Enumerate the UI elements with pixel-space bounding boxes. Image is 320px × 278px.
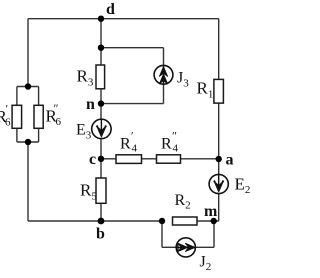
resistor R3 [96, 65, 105, 89]
svg-text:m: m [204, 203, 218, 220]
wire right rail upper [218, 19, 220, 80]
svg-text:4: 4 [173, 143, 179, 155]
wire c to R4' [101, 158, 116, 160]
node R6 top junction [25, 83, 31, 89]
svg-text:′: ′ [6, 102, 9, 116]
wire J2 branch bottom left [162, 246, 176, 248]
wire R4'' to a [181, 158, 219, 160]
resistor R2 [173, 217, 198, 225]
label R6' [0, 102, 11, 129]
svg-text:d: d [106, 1, 115, 18]
resistor R5 [96, 178, 106, 203]
svg-text:c: c [89, 151, 96, 168]
svg-text:a: a [226, 152, 234, 169]
svg-text:R: R [120, 136, 131, 153]
wire left rail upper [27, 19, 29, 87]
source E2 [209, 174, 228, 193]
wire top rail d [28, 18, 219, 20]
resistor R4' [116, 155, 142, 164]
wire bottom rail [28, 220, 162, 222]
svg-text:4: 4 [132, 143, 138, 155]
label R4' [120, 129, 138, 155]
source J2 [176, 238, 195, 257]
resistor R6'' [34, 105, 43, 128]
svg-text:′: ′ [131, 129, 134, 143]
node a junction [216, 156, 222, 162]
wire left rail lower [27, 142, 29, 221]
wire R6' leads [16, 87, 18, 143]
svg-text:b: b [96, 226, 105, 243]
wire R6 top bar [17, 86, 39, 88]
wire R6 bottom bar [17, 141, 39, 143]
wire R3 leads [100, 48, 102, 104]
label R6'' [46, 101, 62, 128]
wire R2 right lead to m [197, 220, 219, 222]
resistor R1 [214, 79, 224, 103]
node R2 left junction [159, 218, 165, 224]
svg-text:n: n [86, 96, 95, 113]
resistor R6' [12, 105, 22, 128]
node d junction [98, 16, 104, 22]
svg-text:6: 6 [5, 117, 11, 129]
wire J3 branch bottom to n [101, 103, 164, 105]
wire J3 branch right lower [163, 84, 165, 103]
wire J2 branch bottom right [195, 246, 214, 248]
wire J2 branch left [161, 221, 163, 247]
svg-text:6: 6 [56, 116, 62, 128]
wire a to E2 [218, 159, 220, 175]
wire R1 to a [218, 103, 220, 159]
source J3 [154, 65, 173, 84]
node m junction [211, 218, 217, 224]
svg-text:R: R [161, 136, 172, 153]
wire E2 to m [218, 193, 220, 221]
wire d to junction [100, 19, 102, 48]
wire J3 branch top [101, 47, 164, 49]
source E3 [92, 119, 111, 138]
node junction below d [98, 45, 104, 51]
node n junction [98, 100, 104, 106]
label R4'' [161, 129, 179, 155]
node b junction [98, 218, 105, 225]
wire R5 leads [100, 159, 102, 221]
svg-text:″: ″ [54, 101, 59, 115]
wire J2 branch right [213, 221, 215, 247]
svg-text:″: ″ [172, 129, 177, 143]
resistor R4'' [157, 155, 181, 163]
wire R4' to R4'' [142, 158, 157, 160]
wire J3 branch right upper [163, 48, 165, 66]
node c junction [98, 156, 104, 162]
wire R6'' leads [38, 87, 40, 143]
wire E3 leads [100, 104, 102, 159]
node R6 bottom junction [25, 139, 31, 145]
